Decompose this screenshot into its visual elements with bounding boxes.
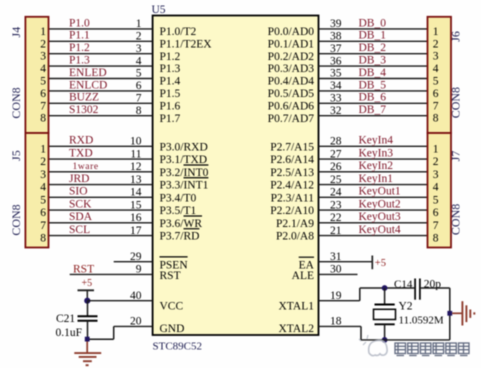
connector J7 body xyxy=(428,133,452,248)
svg-text:18: 18 xyxy=(330,316,342,328)
svg-text:33: 33 xyxy=(330,93,342,105)
wire U5 pin 23 to J7 pin 6 xyxy=(319,209,428,211)
svg-text:KeyOut4: KeyOut4 xyxy=(359,224,401,236)
svg-text:5: 5 xyxy=(136,68,142,80)
svg-text:24: 24 xyxy=(330,187,342,199)
svg-text:28: 28 xyxy=(330,136,342,148)
svg-text:6: 6 xyxy=(136,80,142,92)
svg-text:34: 34 xyxy=(330,80,342,92)
svg-text:1: 1 xyxy=(433,143,439,155)
svg-text:P2.3/A11: P2.3/A11 xyxy=(271,192,315,204)
svg-text:P3.3/INT1: P3.3/INT1 xyxy=(160,180,209,192)
wire bottom rail XTAL2 node xyxy=(361,339,450,341)
svg-text:31: 31 xyxy=(330,251,342,263)
svg-text:P0.1/AD1: P0.1/AD1 xyxy=(268,38,315,50)
svg-text:7: 7 xyxy=(433,100,439,112)
svg-text:1: 1 xyxy=(136,18,142,30)
svg-text:22: 22 xyxy=(330,212,342,224)
wire J4 pin 8 to U5 pin 8 xyxy=(49,115,153,117)
wire U5 pin 19 XTAL1 xyxy=(319,300,360,302)
watermark ghost logo (decorative) xyxy=(359,335,387,356)
svg-text:5: 5 xyxy=(40,76,46,88)
svg-text:P0.5/AD5: P0.5/AD5 xyxy=(268,88,315,100)
svg-text:TXD: TXD xyxy=(69,147,93,159)
overbar RD xyxy=(184,228,200,230)
svg-text:25: 25 xyxy=(330,174,342,186)
wire J4 pin 2 to U5 pin 2 xyxy=(49,40,153,42)
svg-text:CON8: CON8 xyxy=(9,204,23,235)
wire U5 pin 21 to J7 pin 8 xyxy=(319,235,428,237)
svg-text:P0.7/AD7: P0.7/AD7 xyxy=(268,113,315,125)
svg-text:XTAL1: XTAL1 xyxy=(279,301,315,313)
wire +5 junction to U5 pin 40 VCC xyxy=(88,300,153,302)
svg-text:P1.0/T2: P1.0/T2 xyxy=(160,26,197,38)
connector J4 body xyxy=(25,17,48,133)
svg-text:VCC: VCC xyxy=(160,301,184,313)
svg-text:KeyIn3: KeyIn3 xyxy=(359,147,394,159)
svg-text:4: 4 xyxy=(40,182,46,194)
IC U5 (STC89C52 microcontroller) body xyxy=(153,16,319,336)
overbar WR xyxy=(184,215,203,217)
svg-text:2: 2 xyxy=(40,156,46,168)
wire J4 pin 1 to U5 pin 1 xyxy=(49,28,153,30)
svg-text:4: 4 xyxy=(433,182,439,194)
svg-text:ALE: ALE xyxy=(292,270,314,282)
svg-text:P1.5: P1.5 xyxy=(160,88,181,100)
svg-text:3: 3 xyxy=(433,169,439,181)
svg-text:32: 32 xyxy=(330,105,342,117)
svg-text:5: 5 xyxy=(433,76,439,88)
wire U5 pin 18 XTAL2 xyxy=(319,325,362,327)
svg-text:3: 3 xyxy=(40,51,46,63)
svg-text:P3.5/T1: P3.5/T1 xyxy=(160,205,197,217)
svg-text:40: 40 xyxy=(130,290,142,302)
wire U5 pin 24 to J7 pin 5 xyxy=(319,196,428,198)
svg-text:3: 3 xyxy=(136,43,142,55)
svg-text:KeyIn4: KeyIn4 xyxy=(359,135,394,147)
svg-text:14: 14 xyxy=(130,187,142,199)
connector J6 body xyxy=(428,17,452,133)
overbar EA xyxy=(299,256,314,258)
svg-text:P3.1/TXD: P3.1/TXD xyxy=(160,154,208,166)
svg-text:P2.0/A8: P2.0/A8 xyxy=(276,231,314,243)
svg-text:21: 21 xyxy=(330,225,342,237)
svg-text:BUZZ: BUZZ xyxy=(69,92,99,104)
wire U5 pin 32 to J6 pin 8 xyxy=(319,115,428,117)
svg-text:J5: J5 xyxy=(9,150,23,161)
wire J5 pin 4 to U5 pin 13 xyxy=(49,184,153,186)
wire U5 pin 37 to J6 pin 3 xyxy=(319,53,428,55)
svg-text:P3.6/WR: P3.6/WR xyxy=(160,218,203,230)
svg-text:7: 7 xyxy=(40,220,46,232)
svg-text:1ware: 1ware xyxy=(73,162,99,172)
svg-text:RST: RST xyxy=(160,270,181,282)
wire U5 pin 34 to J6 pin 6 xyxy=(319,90,428,92)
svg-text:P2.6/A14: P2.6/A14 xyxy=(270,154,314,166)
svg-text:11.0592M: 11.0592M xyxy=(399,315,444,327)
wire J5 pin 8 to U5 pin 17 xyxy=(49,235,153,237)
wire J5 pin 7 to U5 pin 16 xyxy=(49,222,153,224)
svg-text:P1.1: P1.1 xyxy=(69,30,90,42)
wire J5 pin 3 to U5 pin 12 xyxy=(49,171,153,173)
svg-text:CON8: CON8 xyxy=(448,87,462,118)
svg-text:P3.7/RD: P3.7/RD xyxy=(160,231,200,243)
svg-text:8: 8 xyxy=(136,105,142,117)
svg-text:P0.4/AD4: P0.4/AD4 xyxy=(268,76,315,88)
svg-text:SDA: SDA xyxy=(69,211,93,223)
connector J5 body xyxy=(25,133,48,248)
svg-text:J6: J6 xyxy=(448,31,462,42)
svg-text:19: 19 xyxy=(330,290,342,302)
wire U5 pin 31 EA to +5 xyxy=(319,261,373,263)
svg-text:P2.7/A15: P2.7/A15 xyxy=(270,141,314,153)
svg-text:DB_4: DB_4 xyxy=(359,67,387,79)
wire U5 pin 27 to J7 pin 2 xyxy=(319,158,428,160)
svg-text:23: 23 xyxy=(330,199,342,211)
svg-text:P1.7: P1.7 xyxy=(160,113,181,125)
svg-text:7: 7 xyxy=(40,100,46,112)
wire C14 right to ground drop xyxy=(421,287,450,289)
svg-text:3: 3 xyxy=(40,169,46,181)
junction node (square) C21/GND xyxy=(85,337,90,342)
wire U5 pin 20 GND down to ground xyxy=(114,325,153,327)
svg-text:SCK: SCK xyxy=(69,198,92,210)
junction node right ground tap (square) xyxy=(447,311,452,316)
svg-text:DB_7: DB_7 xyxy=(359,104,387,116)
svg-text:1: 1 xyxy=(40,26,46,38)
svg-text:P1.1/T2EX: P1.1/T2EX xyxy=(160,38,213,50)
svg-text:U5: U5 xyxy=(152,4,166,16)
junction node crystal bottom xyxy=(382,337,388,343)
svg-text:27: 27 xyxy=(330,148,342,160)
svg-text:Y2: Y2 xyxy=(399,301,413,313)
wire U5 pin 28 to J7 pin 1 xyxy=(319,145,428,147)
svg-text:C21: C21 xyxy=(56,313,75,325)
svg-text:P1.3: P1.3 xyxy=(160,63,181,75)
svg-text:P1.2: P1.2 xyxy=(160,51,181,63)
svg-text:4: 4 xyxy=(433,63,439,75)
svg-text:S1302: S1302 xyxy=(69,104,99,116)
svg-text:RST: RST xyxy=(73,263,94,275)
svg-text:DB_1: DB_1 xyxy=(359,30,387,42)
capacitor C21 xyxy=(87,301,89,317)
svg-text:5: 5 xyxy=(40,194,46,206)
svg-text:ENLED: ENLED xyxy=(69,67,107,79)
svg-text:KeyIn2: KeyIn2 xyxy=(359,160,394,172)
svg-text:P3.4/T0: P3.4/T0 xyxy=(160,192,197,204)
svg-text:2: 2 xyxy=(433,38,439,50)
svg-text:C14: C14 xyxy=(394,278,413,290)
svg-text:7: 7 xyxy=(433,220,439,232)
svg-text:39: 39 xyxy=(330,18,342,30)
svg-text:CON8: CON8 xyxy=(448,204,462,235)
svg-text:SIO: SIO xyxy=(69,186,88,198)
svg-text:P0.0/AD0: P0.0/AD0 xyxy=(268,26,315,38)
svg-text:P0.3/AD3: P0.3/AD3 xyxy=(268,63,315,75)
svg-text:6: 6 xyxy=(433,207,439,219)
svg-text:26: 26 xyxy=(330,161,342,173)
svg-text:0.1uF: 0.1uF xyxy=(56,327,83,339)
svg-text:ENLCD: ENLCD xyxy=(69,79,107,91)
capacitor C14 xyxy=(414,279,416,300)
svg-text:GND: GND xyxy=(160,323,185,335)
svg-text:12: 12 xyxy=(130,161,142,173)
svg-text:KeyOut1: KeyOut1 xyxy=(359,186,401,198)
svg-text:DB_5: DB_5 xyxy=(359,79,387,91)
svg-text:P1.3: P1.3 xyxy=(69,55,90,67)
power +5 symbol (right) xyxy=(371,256,373,270)
svg-text:CON8: CON8 xyxy=(9,87,23,118)
svg-text:6: 6 xyxy=(433,88,439,100)
overbar INT0 xyxy=(184,164,209,166)
svg-text:15: 15 xyxy=(130,199,142,211)
wire U5 pin 39 to J6 pin 1 xyxy=(319,28,428,30)
wire J5 pin 2 to U5 pin 11 xyxy=(49,158,153,160)
svg-text:10: 10 xyxy=(130,136,142,148)
svg-text:16: 16 xyxy=(130,212,142,224)
svg-text:P0.6/AD6: P0.6/AD6 xyxy=(268,100,315,112)
svg-text:11: 11 xyxy=(130,148,141,160)
svg-text:P2.4/A12: P2.4/A12 xyxy=(270,180,314,192)
junction node VCC xyxy=(84,298,90,304)
svg-text:J4: J4 xyxy=(9,27,23,38)
svg-text:38: 38 xyxy=(330,31,342,43)
svg-text:5: 5 xyxy=(433,194,439,206)
wire U5 pin 35 to J6 pin 5 xyxy=(319,78,428,80)
wire U5 pin 25 to J7 pin 4 xyxy=(319,184,428,186)
svg-text:SCL: SCL xyxy=(69,224,90,236)
svg-text:DB_0: DB_0 xyxy=(359,17,387,29)
svg-text:DB_2: DB_2 xyxy=(359,42,387,54)
wire J4 pin 4 to U5 pin 4 xyxy=(49,65,153,67)
wire J5 pin 1 to U5 pin 10 xyxy=(49,145,153,147)
svg-text:KeyIn1: KeyIn1 xyxy=(359,173,394,185)
watermark text (simulated CJK glyphs) xyxy=(395,343,469,356)
svg-text:P3.0/RXD: P3.0/RXD xyxy=(160,141,208,153)
svg-text:6: 6 xyxy=(40,207,46,219)
crystal Y2 xyxy=(384,288,386,305)
svg-text:P1.2: P1.2 xyxy=(69,42,90,54)
svg-text:9: 9 xyxy=(136,264,142,276)
wire U5 pin 26 to J7 pin 3 xyxy=(319,171,428,173)
svg-text:P1.4: P1.4 xyxy=(160,76,181,88)
svg-text:P1.6: P1.6 xyxy=(160,100,181,112)
svg-text:4: 4 xyxy=(40,63,46,75)
wire U5 pin 36 to J6 pin 4 xyxy=(319,65,428,67)
wire J5 pin 6 to U5 pin 15 xyxy=(49,209,153,211)
svg-text:J7: J7 xyxy=(448,151,462,162)
svg-text:P1.0: P1.0 xyxy=(69,17,90,29)
svg-text:8: 8 xyxy=(433,233,439,245)
svg-text:36: 36 xyxy=(330,55,342,67)
wire J4 pin 7 to U5 pin 7 xyxy=(49,102,153,104)
wire U5 pin 38 to J6 pin 2 xyxy=(319,40,428,42)
svg-text:P2.1/A9: P2.1/A9 xyxy=(276,218,314,230)
svg-text:+5: +5 xyxy=(375,258,386,269)
svg-text:30: 30 xyxy=(330,264,342,276)
wire U5 pin 22 to J7 pin 7 xyxy=(319,222,428,224)
junction node XTAL1/crystal top xyxy=(382,285,388,291)
wire J4 pin 5 to U5 pin 5 xyxy=(49,78,153,80)
svg-text:1: 1 xyxy=(40,143,46,155)
svg-text:37: 37 xyxy=(330,43,342,55)
wire J5 pin 5 to U5 pin 14 xyxy=(49,196,153,198)
svg-text:8: 8 xyxy=(40,113,46,125)
svg-text:STC89C52: STC89C52 xyxy=(153,341,203,353)
svg-text:3: 3 xyxy=(433,51,439,63)
wire U5 pin 30 ALE stub xyxy=(319,273,358,275)
wire U5 pin 29 PSEN stub xyxy=(114,261,153,263)
overbar PSEN xyxy=(160,256,188,258)
overbar INT1 xyxy=(184,177,209,179)
wire J4 pin 6 to U5 pin 6 xyxy=(49,90,153,92)
svg-text:RXD: RXD xyxy=(69,135,93,147)
svg-text:7: 7 xyxy=(136,93,142,105)
ground (left) xyxy=(86,342,88,353)
svg-text:DB_3: DB_3 xyxy=(359,55,387,67)
svg-text:2: 2 xyxy=(136,31,142,43)
wire U5 pin 33 to J6 pin 7 xyxy=(319,102,428,104)
svg-text:2: 2 xyxy=(433,156,439,168)
wire J4 pin 3 to U5 pin 3 xyxy=(49,53,153,55)
svg-text:P3.2/INT0: P3.2/INT0 xyxy=(160,167,209,179)
svg-text:KeyOut2: KeyOut2 xyxy=(359,198,401,210)
svg-text:KeyOut3: KeyOut3 xyxy=(359,211,401,223)
svg-text:P2.5/A13: P2.5/A13 xyxy=(270,167,314,179)
svg-text:JRD: JRD xyxy=(69,173,89,185)
wire top rail XTAL1 node xyxy=(360,287,415,289)
svg-text:29: 29 xyxy=(130,251,142,263)
svg-text:P0.2/AD2: P0.2/AD2 xyxy=(268,51,315,63)
svg-text:8: 8 xyxy=(40,233,46,245)
svg-text:2: 2 xyxy=(40,38,46,50)
svg-text:1: 1 xyxy=(433,26,439,38)
svg-text:P2.2/A10: P2.2/A10 xyxy=(270,205,314,217)
svg-text:13: 13 xyxy=(130,174,142,186)
wire RST to U5 pin 9 xyxy=(70,273,153,275)
svg-text:17: 17 xyxy=(130,225,142,237)
svg-text:6: 6 xyxy=(40,88,46,100)
svg-text:XTAL2: XTAL2 xyxy=(279,323,315,335)
svg-text:DB_6: DB_6 xyxy=(359,92,387,104)
svg-text:4: 4 xyxy=(136,55,142,67)
svg-text:20: 20 xyxy=(130,316,142,328)
svg-text:35: 35 xyxy=(330,68,342,80)
svg-text:8: 8 xyxy=(433,113,439,125)
svg-text:+5: +5 xyxy=(82,278,93,289)
ground (right, rotated) xyxy=(452,312,462,314)
